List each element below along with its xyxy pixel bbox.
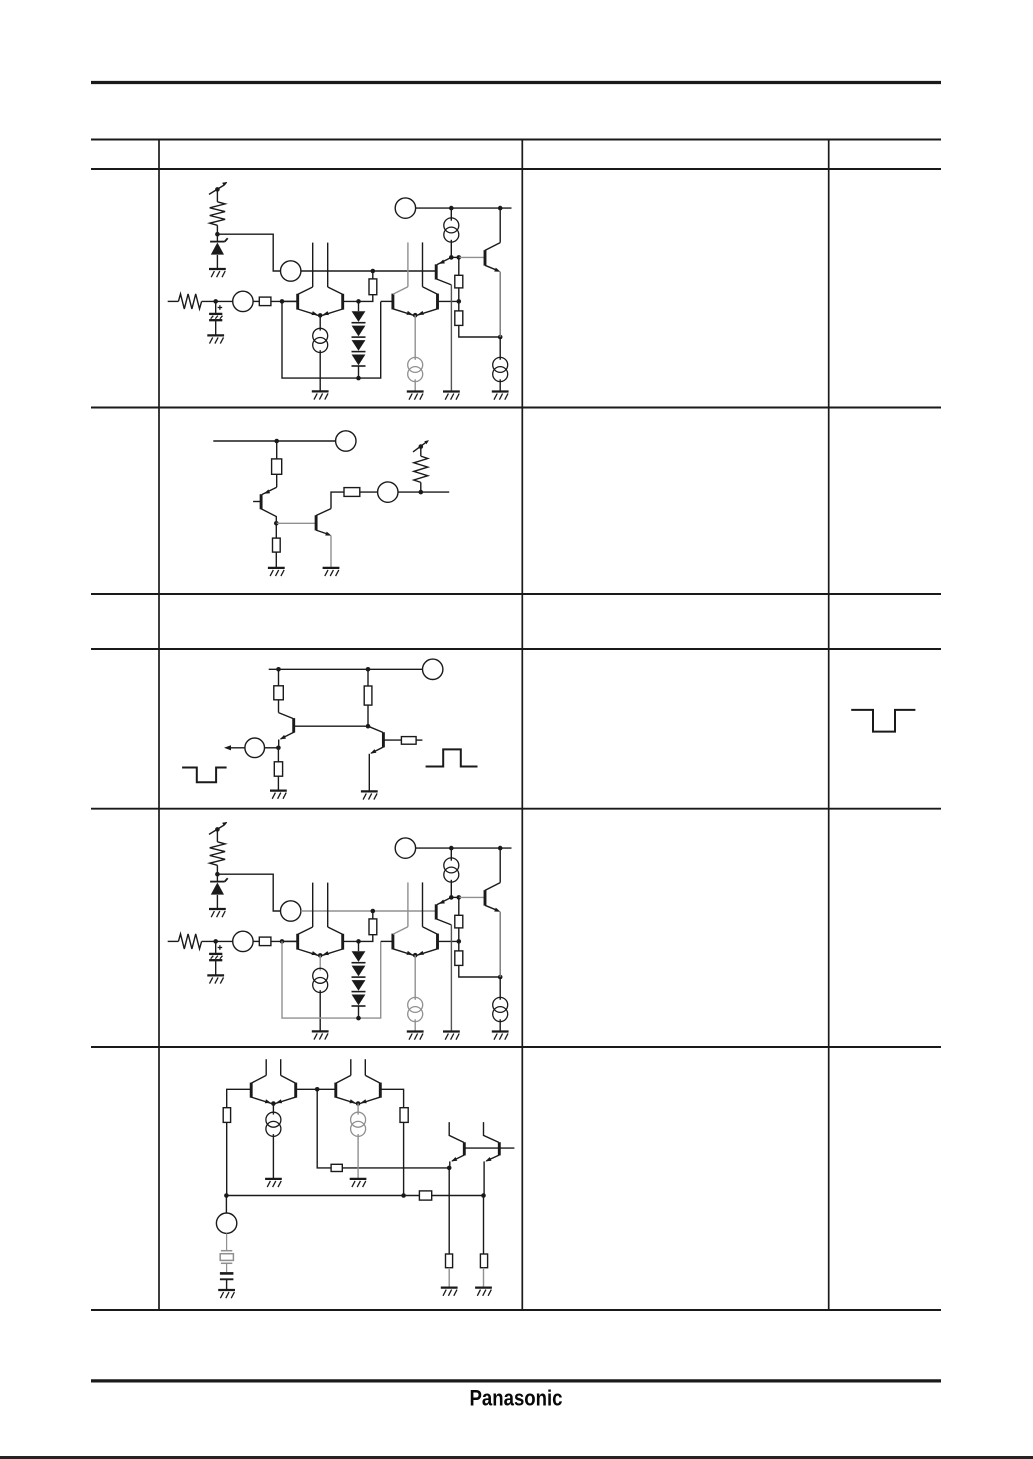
wire bbox=[272, 1104, 274, 1115]
wire bbox=[459, 896, 485, 898]
wire bbox=[499, 337, 501, 360]
resistor R12 bbox=[401, 737, 416, 745]
wire bbox=[202, 940, 233, 942]
transistor Q2a (diff pair left) bbox=[391, 294, 394, 310]
wire bbox=[168, 940, 179, 942]
wire bbox=[420, 447, 422, 457]
node base interconnect bbox=[315, 1087, 320, 1092]
wire bbox=[343, 935, 373, 942]
wire bbox=[319, 990, 321, 1031]
capacitor C1 polarity mark bbox=[218, 947, 223, 949]
node bus junction bbox=[356, 376, 361, 381]
node collector junction bbox=[274, 521, 279, 526]
resistor R8 bbox=[344, 488, 360, 497]
wire bbox=[294, 725, 368, 727]
transistor Q6 (NPN) bbox=[315, 515, 318, 530]
wire bbox=[420, 482, 422, 492]
wire bbox=[202, 300, 233, 302]
capacitor C1 bbox=[209, 953, 222, 955]
resistor R17 bbox=[446, 1254, 453, 1268]
ground bbox=[443, 1030, 460, 1032]
node bus junction L bbox=[224, 1193, 229, 1198]
ground bbox=[350, 1178, 367, 1180]
resistor R5 bbox=[455, 951, 463, 966]
node resistor mid junction bbox=[457, 939, 462, 944]
wire bbox=[458, 928, 460, 951]
resistor R16 bbox=[419, 1191, 431, 1200]
node emitter chain junction bbox=[498, 335, 503, 340]
wire bbox=[358, 1006, 360, 1018]
resistor VR2 bbox=[414, 456, 428, 482]
node resistor mid junction bbox=[457, 299, 462, 304]
wire bbox=[358, 941, 360, 951]
ground bbox=[268, 567, 285, 569]
node emitter junction Q1 bbox=[318, 953, 323, 958]
wire bbox=[499, 912, 501, 977]
wire bbox=[278, 740, 280, 748]
wire bbox=[253, 300, 259, 302]
wire bbox=[269, 668, 423, 670]
node main line junction bbox=[371, 909, 376, 914]
wire bbox=[216, 829, 218, 841]
wire bbox=[275, 523, 277, 538]
wire bbox=[483, 1196, 485, 1255]
wire bbox=[499, 208, 501, 243]
transistor Q7 (NPN) bbox=[292, 718, 295, 733]
wire bbox=[265, 747, 279, 749]
node CS3 output bbox=[449, 895, 454, 900]
variable resistor VR1 arrow bbox=[209, 185, 224, 194]
ground bbox=[492, 1030, 509, 1032]
current source CS3 bbox=[444, 218, 459, 233]
transistor Q2a (diff pair left) bbox=[391, 934, 394, 950]
ground bbox=[475, 1286, 492, 1288]
current source CS4 bbox=[493, 997, 508, 1012]
resistor R3 bbox=[369, 919, 377, 935]
diode chain D1-D4 bbox=[352, 311, 366, 322]
node bus junction M bbox=[401, 1193, 406, 1198]
node base junction bbox=[366, 724, 371, 729]
node zener junction bbox=[215, 872, 220, 877]
wire bbox=[216, 895, 218, 909]
node main line junction bbox=[371, 269, 376, 274]
wire bbox=[277, 776, 279, 790]
wire bbox=[358, 301, 360, 311]
wire bbox=[448, 1168, 450, 1254]
ground bbox=[209, 908, 226, 910]
transistor Q11 (NPN) bbox=[463, 1142, 466, 1155]
zener diode ZD1 bbox=[210, 241, 225, 243]
wire bbox=[272, 1134, 274, 1179]
wire bbox=[459, 965, 500, 977]
node emitter chain junction bbox=[498, 975, 503, 980]
wire bbox=[317, 1089, 331, 1168]
wire bbox=[450, 208, 452, 221]
wire bbox=[226, 1122, 228, 1195]
transistor Q3 (PNP) bbox=[435, 904, 438, 919]
wire bbox=[450, 848, 452, 861]
wire bbox=[414, 955, 416, 1000]
wire bbox=[343, 295, 373, 302]
node rail junction 1 bbox=[449, 846, 454, 851]
arrow output direction bbox=[224, 745, 231, 750]
ground bbox=[209, 268, 226, 270]
resistor R3 bbox=[369, 279, 377, 295]
current source CS2 bbox=[408, 357, 423, 372]
waveform input pulse bbox=[182, 768, 227, 783]
ground bbox=[312, 390, 329, 392]
node rail junction R bbox=[366, 667, 371, 672]
transistor Q1a (diff pair left) bbox=[296, 294, 299, 310]
ground bbox=[443, 390, 460, 392]
wire bbox=[367, 669, 369, 686]
resistor VR1 bbox=[210, 202, 225, 226]
wire bbox=[301, 910, 436, 912]
transistor Q10b (diff pair right) bbox=[379, 1083, 382, 1098]
pin P8 bbox=[216, 1213, 236, 1233]
transistor Q8 (NPN) bbox=[382, 732, 385, 747]
wire bbox=[282, 941, 381, 1018]
wire bbox=[414, 315, 416, 360]
transistor Q5 (PNP) bbox=[260, 494, 263, 509]
transistor Q12 (NPN) bbox=[498, 1142, 501, 1155]
wire bbox=[459, 256, 485, 258]
resistor VR1 bbox=[210, 842, 225, 866]
wire bbox=[499, 977, 501, 1000]
wire bbox=[368, 754, 370, 791]
wire bbox=[215, 301, 217, 313]
node emitter junction Q2 bbox=[413, 953, 418, 958]
wire bbox=[227, 1089, 252, 1107]
wire bbox=[450, 925, 452, 1031]
pin P2 bbox=[233, 931, 253, 951]
wire bbox=[458, 897, 460, 915]
svg-text:Panasonic: Panasonic bbox=[470, 1386, 563, 1411]
resistor R15 bbox=[400, 1108, 408, 1123]
resistor R4 bbox=[455, 275, 463, 288]
wire bbox=[357, 1104, 359, 1115]
resistor R11 bbox=[364, 686, 372, 705]
transistor Q3 (PNP) bbox=[435, 264, 438, 279]
wire bases bbox=[464, 1147, 514, 1149]
node diode junction top bbox=[356, 299, 361, 304]
wire bbox=[483, 1268, 485, 1288]
ground bbox=[207, 334, 224, 336]
node supply junction bbox=[274, 439, 279, 444]
wire bbox=[450, 880, 452, 898]
wire bbox=[282, 301, 381, 378]
resistor R14 bbox=[331, 1164, 342, 1171]
wire bbox=[278, 700, 280, 713]
node emitter junction Q9 bbox=[271, 1101, 276, 1106]
current source CS2 bbox=[408, 997, 423, 1012]
wire bbox=[271, 940, 297, 942]
wire bbox=[296, 1088, 336, 1090]
wire bbox=[416, 739, 422, 741]
wire bbox=[357, 1134, 359, 1179]
wire bbox=[276, 522, 315, 524]
variable resistor VR1 arrow bbox=[209, 825, 224, 834]
wire bbox=[226, 1263, 228, 1272]
wire bbox=[438, 300, 459, 302]
wire bbox=[416, 847, 512, 849]
wire bbox=[458, 257, 460, 275]
wire bbox=[372, 271, 374, 279]
wire bbox=[277, 748, 279, 762]
wire bbox=[301, 270, 436, 272]
wire bbox=[319, 955, 321, 970]
wire bbox=[217, 234, 280, 271]
node zener junction bbox=[215, 232, 220, 237]
node base junction A bbox=[280, 299, 285, 304]
ground bbox=[265, 1178, 282, 1180]
node resistor top junction bbox=[457, 895, 462, 900]
wire bbox=[414, 1019, 416, 1031]
wire bbox=[216, 189, 218, 201]
resistor R2 bbox=[259, 937, 271, 946]
zener diode ZD1 bbox=[210, 881, 225, 883]
node emitter junction L2 bbox=[447, 1166, 452, 1171]
transistor Q9b (diff pair right) bbox=[294, 1083, 297, 1098]
ground bbox=[407, 390, 424, 392]
ground bbox=[361, 790, 378, 792]
pin P5 bbox=[378, 482, 398, 502]
node rail junction 2 bbox=[498, 206, 503, 211]
wire bbox=[216, 255, 218, 269]
wire bbox=[330, 536, 332, 568]
node input junction bbox=[213, 939, 218, 944]
resistor R10 bbox=[274, 762, 282, 776]
waveform collector pulse bbox=[426, 749, 478, 766]
wire bbox=[168, 300, 179, 302]
wire bbox=[449, 1161, 451, 1168]
wire bbox=[217, 874, 280, 911]
pin P7 bbox=[245, 738, 265, 758]
pin P2 bbox=[233, 291, 253, 311]
wire bbox=[414, 379, 416, 391]
resistor R9 bbox=[274, 686, 284, 700]
ground bbox=[218, 1289, 235, 1291]
wire bbox=[381, 300, 393, 302]
wire bbox=[380, 1089, 403, 1107]
ground bbox=[441, 1286, 458, 1288]
wire bbox=[276, 474, 278, 487]
wire bbox=[367, 705, 369, 726]
wire bbox=[458, 288, 460, 311]
diode chain D1-D4 bbox=[352, 951, 366, 962]
wire bbox=[226, 1279, 228, 1290]
node VR2 terminal bbox=[419, 444, 424, 449]
ground bbox=[312, 1030, 329, 1032]
wire bbox=[499, 272, 501, 337]
wire bbox=[271, 300, 297, 302]
transistor Q10a (diff pair left) bbox=[334, 1083, 337, 1098]
node emitter junction Q1 bbox=[318, 313, 323, 318]
ground bbox=[492, 390, 509, 392]
node VR1 terminal bbox=[215, 827, 220, 832]
ground bbox=[207, 974, 224, 976]
node input junction bbox=[213, 299, 218, 304]
node emitter junction bbox=[276, 746, 281, 751]
wire bbox=[215, 321, 217, 335]
current source CS5 bbox=[266, 1112, 281, 1127]
wire bbox=[215, 941, 217, 953]
node emitter junction Q2 bbox=[413, 313, 418, 318]
wire bbox=[438, 940, 459, 942]
wire bbox=[276, 441, 278, 459]
wire bbox=[372, 911, 374, 919]
wire bbox=[226, 1195, 419, 1197]
resistor R2 bbox=[259, 297, 271, 306]
wire bbox=[459, 325, 500, 337]
wire bbox=[448, 1268, 450, 1288]
node rail junction L bbox=[276, 667, 281, 672]
capacitor C1 polarity mark bbox=[218, 307, 223, 309]
wire bbox=[216, 225, 218, 241]
resistor R5 bbox=[455, 311, 463, 326]
transistor Q4 (NPN) bbox=[484, 250, 487, 266]
transistor Q1a (diff pair left) bbox=[296, 934, 299, 950]
variable resistor VR2 arrow bbox=[413, 441, 427, 452]
current source CS4 bbox=[493, 357, 508, 372]
current source CS6 bbox=[351, 1112, 366, 1127]
wire bbox=[499, 1019, 501, 1031]
current source CS1 bbox=[313, 328, 328, 343]
wire bbox=[483, 1161, 485, 1195]
node resistor top junction bbox=[457, 255, 462, 260]
node bus junction bbox=[356, 1016, 361, 1021]
wire bbox=[331, 492, 344, 509]
transistor Q4 (NPN) bbox=[484, 890, 487, 906]
wire bbox=[398, 491, 449, 493]
wire bbox=[216, 865, 218, 881]
wire bbox=[451, 896, 459, 898]
node base junction A bbox=[280, 939, 285, 944]
wire bbox=[253, 940, 259, 942]
current source CS3 bbox=[444, 858, 459, 873]
wire bbox=[319, 350, 321, 391]
resonator X1 bbox=[221, 1250, 232, 1252]
wire bbox=[342, 1167, 449, 1169]
wire bbox=[416, 207, 512, 209]
resistor R6 bbox=[272, 459, 282, 474]
wire bbox=[282, 300, 298, 302]
wire bbox=[383, 739, 401, 741]
wire bbox=[499, 848, 501, 883]
resistor R4 bbox=[455, 915, 463, 928]
ground bbox=[270, 789, 287, 791]
pin P1 bbox=[281, 901, 301, 921]
node diode junction top bbox=[356, 939, 361, 944]
node emitter junction Q10 bbox=[356, 1101, 361, 1106]
node VR1 terminal bbox=[215, 187, 220, 192]
wire bbox=[319, 315, 321, 330]
pin P3 bbox=[395, 198, 415, 218]
wire bbox=[432, 1195, 484, 1197]
node rail junction 1 bbox=[449, 206, 454, 211]
wire bbox=[360, 491, 378, 493]
resistor R18 bbox=[480, 1254, 487, 1268]
node rail junction 2 bbox=[498, 846, 503, 851]
pin P1 bbox=[281, 261, 301, 281]
wire bbox=[226, 1233, 228, 1250]
resistor R1 bbox=[178, 294, 201, 309]
pin P3 bbox=[395, 838, 415, 858]
wire bbox=[499, 379, 501, 391]
transistor Q9a (diff pair left) bbox=[250, 1083, 253, 1098]
transistor Q2b (diff pair right) bbox=[436, 934, 439, 950]
wire bbox=[451, 256, 459, 258]
wire bbox=[275, 552, 277, 568]
wire bbox=[450, 285, 452, 391]
current source CS1 bbox=[313, 968, 328, 983]
wire bbox=[278, 669, 280, 686]
capacitor C1 bbox=[209, 313, 222, 315]
capacitor C2 bbox=[220, 1272, 234, 1275]
node output junction bbox=[419, 490, 424, 495]
wire bbox=[381, 940, 393, 942]
resistor R1 bbox=[178, 934, 201, 949]
ground bbox=[323, 567, 340, 569]
resistor R7 bbox=[273, 538, 281, 552]
wire bbox=[225, 1196, 227, 1214]
node CS3 output bbox=[449, 255, 454, 260]
node bus junction R bbox=[481, 1193, 486, 1198]
resistor R13 bbox=[223, 1108, 230, 1123]
wire bbox=[358, 366, 360, 378]
pin P4 bbox=[336, 431, 356, 451]
wire bbox=[282, 940, 298, 942]
wire bbox=[226, 747, 245, 749]
wire bbox=[213, 440, 335, 442]
transistor Q1b (diff pair right) bbox=[341, 934, 344, 950]
transistor Q1b (diff pair right) bbox=[341, 294, 344, 310]
wire bbox=[403, 1122, 405, 1195]
waveform output pulse (column 4) bbox=[851, 710, 915, 732]
wire bbox=[450, 240, 452, 258]
ground bbox=[407, 1030, 424, 1032]
pin P6 bbox=[423, 659, 443, 679]
transistor Q2b (diff pair right) bbox=[436, 294, 439, 310]
wire bbox=[215, 961, 217, 975]
